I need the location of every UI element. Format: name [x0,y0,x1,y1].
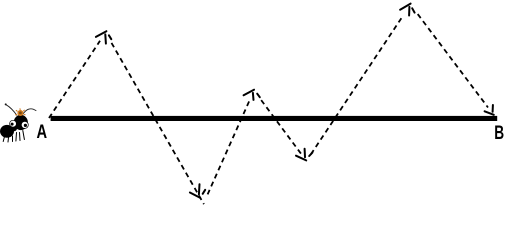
wire: dashed segment peak P1 to valley V1 [112,43,204,204]
ant head [14,115,28,130]
arrowhead down at valley V2 [296,149,312,161]
wire: dashed segment peak P3 to B [418,14,488,107]
ant left antenna [6,105,17,116]
arrowhead up at peak P2 [244,90,260,100]
wire: thick baseline segment from A to B [51,116,498,121]
ant clip-art at point A [0,103,36,142]
wire: dashed segment valley V2 to peak P3 [311,15,403,154]
ant right antenna [23,109,36,114]
arrowhead down at point B [485,105,494,115]
wire: dashed segment peak P2 to valley V2 [261,100,301,154]
svg-text:A: A [37,121,48,143]
ant fuzz patch on head [16,109,26,116]
ant thorax [11,125,17,131]
ant abdomen [0,125,14,138]
arrowhead up at peak P1 [96,31,111,43]
ant legs [3,131,24,143]
arrowhead up at peak P3 [400,4,415,16]
svg-text:B: B [494,122,504,144]
ant right eye [21,121,28,128]
ant left eye [10,120,17,127]
wire: dashed segment A to peak P1 [49,41,100,118]
wire: dashed segment valley V1 to peak P2 [208,101,250,195]
arrowhead down at valley V1 [190,184,205,198]
